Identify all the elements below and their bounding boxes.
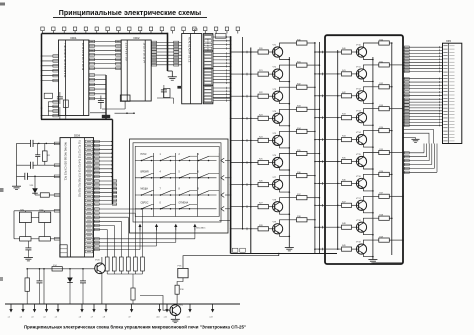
outer frame drop to ground at x=167.5 <box>167 33 169 71</box>
emitter wire VT5 <box>280 145 291 149</box>
collector output wire row 3 <box>307 86 316 88</box>
capacitor C3 vertical <box>35 154 40 156</box>
svg-text:DD8: DD8 <box>74 133 80 137</box>
svg-text:DD3: DD3 <box>193 27 199 31</box>
svg-text:a2: a2 <box>20 317 22 319</box>
resistor R13 <box>39 237 50 241</box>
small block below DD3 <box>164 89 171 98</box>
resistor row R5-R10 <box>105 257 144 274</box>
transistor VT11 <box>356 67 367 80</box>
collector output wire right row 1 <box>389 42 392 44</box>
keyboard switch SB10 <box>160 189 176 196</box>
resistor R41 <box>342 70 352 76</box>
right driver block border <box>325 35 403 264</box>
keyboard switch SB5 <box>141 171 154 178</box>
transistor VT12 <box>356 88 367 101</box>
left array collector rail A <box>314 42 316 254</box>
emitter wire VT4 <box>280 123 291 127</box>
collector output wire row 8 <box>307 197 320 199</box>
keyboard switch SB4 <box>198 154 220 161</box>
left array input wire row 8 <box>230 205 258 208</box>
capacitor C2 <box>30 162 32 169</box>
vertical bus XS1 <box>230 36 232 253</box>
collector wire VT6 <box>280 154 297 159</box>
svg-text:ОТМЕНА: ОТМЕНА <box>179 201 189 204</box>
base wire VT13 <box>352 117 359 119</box>
collector output wire row 6 <box>307 153 320 155</box>
base wire VT5 <box>269 139 275 141</box>
resistor R37 <box>297 194 308 200</box>
heavy vertical net at x=106 <box>105 75 107 119</box>
base wire VT16 <box>352 182 359 184</box>
emitter wire VT3 <box>280 101 291 105</box>
outer frame bottom edge left part <box>41 118 113 120</box>
resistor R45 <box>342 158 352 164</box>
resistor R27 <box>258 203 269 209</box>
connector ladder group 1 <box>403 46 443 73</box>
wire row 3 <box>17 175 61 177</box>
IC DD1 left pins lower group <box>48 101 58 117</box>
collector output wire right row 9 <box>389 217 392 219</box>
svg-text:МОЩН: МОЩН <box>141 189 149 191</box>
oscillator wire row 1 <box>17 142 61 144</box>
left array input wire row 4 <box>230 117 258 120</box>
main ground rail <box>5 303 240 305</box>
svg-text:a8: a8 <box>103 317 105 319</box>
connector lower ladder group 4 <box>403 144 437 174</box>
left array input wire row 7 <box>230 183 258 186</box>
svg-text:a4: a4 <box>43 317 45 319</box>
resistor R49 <box>342 245 352 251</box>
right array input wire row 6 <box>314 160 341 163</box>
right array emitter bottom wire <box>373 262 403 264</box>
resistor R34 <box>297 128 308 134</box>
MCU pin ladder to heavy vertical <box>94 140 113 177</box>
outer frame left edge <box>41 34 43 120</box>
transistor VT16 <box>356 176 367 188</box>
transistor VT3 <box>273 89 283 101</box>
svg-text:А0 А1 А2 А3 А4 ОЕ СЕ: А0 А1 А2 А3 А4 ОЕ СЕ <box>187 37 190 63</box>
base wire VT17 <box>352 204 359 206</box>
emitter wire VT9 <box>280 233 291 237</box>
connector XP2 body <box>443 43 462 143</box>
IC DD3 right pin box column <box>203 34 213 104</box>
capacitor C6 under DD3 <box>161 89 167 91</box>
right array input wire row 2 <box>314 73 341 76</box>
keyboard switch SB2 <box>160 154 176 161</box>
capacitor C7 <box>24 173 26 180</box>
left array bottom pin labels <box>232 248 238 252</box>
resistor R28 <box>258 225 269 231</box>
VT20 emitter wire <box>101 273 103 304</box>
svg-text:a6: a6 <box>79 317 81 319</box>
base wire VT12 <box>352 95 359 97</box>
right array emitter ground <box>372 258 374 260</box>
IC DD3 internal divider <box>190 34 192 104</box>
transistor VT10 <box>356 45 367 58</box>
collector output wire right row 10 <box>389 239 403 241</box>
IC DD1 lower pins jumper bracket <box>42 102 49 116</box>
resistor R20 <box>258 48 269 54</box>
emitter wire VT10 <box>363 56 373 60</box>
resistor R16 vertical <box>175 285 179 294</box>
outer frame vertical drop at x=112 <box>112 119 114 204</box>
base wire VT3 <box>269 95 275 97</box>
collector wire VT3 <box>280 87 297 92</box>
resistor R11 <box>131 288 135 300</box>
keyboard switch SB15 <box>179 201 198 209</box>
resistor R3 under DD1 <box>63 100 68 107</box>
right array input wire row 10 <box>314 248 341 251</box>
collector wire VT9 <box>280 220 297 225</box>
resistor R26 <box>258 181 269 187</box>
resistor R31 <box>297 62 308 68</box>
svg-text:РА0 РА1 РА2 ВВ ОЗУ СЭ РС0 РС1: РА0 РА1 РА2 ВВ ОЗУ СЭ РС0 РС1 <box>64 142 67 181</box>
keyboard switch SB13 <box>141 202 154 209</box>
wire to R11 <box>132 274 134 288</box>
left array input wire row 6 <box>230 161 258 164</box>
resistor R14 <box>52 267 62 271</box>
keyboard outer box <box>130 139 229 233</box>
emitter wire VT8 <box>280 211 291 215</box>
base wire VT2 <box>269 73 275 75</box>
keyboard switch SB8 <box>198 171 220 178</box>
wire under DD3 to pin column <box>157 97 174 99</box>
resistor R58 <box>379 215 390 221</box>
collector output wire right row 5 <box>389 130 392 132</box>
capacitor C8 <box>25 247 31 249</box>
emitter wire VT15 <box>363 166 373 170</box>
capacitor C1 <box>30 140 32 147</box>
collector output wire row 9 <box>307 219 316 221</box>
resistor R55 <box>379 149 390 155</box>
left array input wire row 9 <box>230 228 258 231</box>
capacitor C5 under DD1 <box>57 96 63 98</box>
right array input wire row 3 <box>314 95 341 98</box>
collector wire VT17 <box>363 196 378 201</box>
svg-text:a1: a1 <box>8 317 10 319</box>
resistor R23 <box>258 114 269 120</box>
keyboard inner box <box>135 146 219 216</box>
collector output wire right row 8 <box>389 196 403 198</box>
keyboard row 4 wire <box>135 208 216 210</box>
wire near frame corner left <box>90 112 106 114</box>
scan speck left edge 2 <box>0 277 3 281</box>
resistor R32 <box>297 84 308 90</box>
transistor VT2 <box>273 67 283 80</box>
transistor VT7 <box>273 177 283 190</box>
transistor VT6 <box>273 155 283 167</box>
connector bent wire 1 <box>403 130 434 144</box>
resistor R44 <box>342 136 352 142</box>
resonator coupling wire <box>31 216 39 218</box>
resistor R42 <box>342 92 352 98</box>
resistor R22 <box>258 92 269 98</box>
resistor R2 <box>40 193 49 197</box>
wire drop left <box>43 269 45 304</box>
svg-text:a9: a9 <box>128 317 130 319</box>
svg-text:a10: a10 <box>156 317 159 319</box>
collector wire VT19 <box>363 240 378 245</box>
collector wire VT11 <box>363 65 378 70</box>
left vertical supply wire <box>16 143 18 185</box>
resonator wire row <box>14 210 60 212</box>
left array input wire row 3 <box>230 95 258 98</box>
resistor R53 <box>379 105 390 111</box>
left array input rail <box>250 48 252 254</box>
IC DD2 internal dividers <box>126 40 128 101</box>
relay supply wire <box>183 254 279 269</box>
collector wire VT13 <box>363 109 378 114</box>
svg-text:Принципиальная электрическая с: Принципиальная электрическая схема блока… <box>24 325 246 330</box>
MCU pin wires to resistor row <box>94 208 143 257</box>
ground G1 <box>16 185 18 186</box>
bottom common wire <box>27 268 95 270</box>
resistor R57 <box>379 193 390 199</box>
resonator ZQ2 (ПЭ1) <box>19 209 31 222</box>
right array input wire row 1 <box>314 51 341 54</box>
collector wire VT16 <box>363 174 378 179</box>
resistor row wire <box>14 238 20 240</box>
connector XP2 pin marks <box>443 46 454 141</box>
svg-text:a3: a3 <box>31 317 33 319</box>
MCU DD4 right pin number boxes <box>85 140 92 253</box>
transistor VT8 <box>273 199 283 211</box>
VT20 collector wire <box>101 257 103 264</box>
emitter wire VT11 <box>363 78 373 82</box>
resistor R33 <box>297 106 308 112</box>
resistor R21 <box>258 70 269 76</box>
keyboard switch SB11 <box>179 189 198 196</box>
MCU DD4 internal dividers <box>70 138 72 257</box>
dark pad below DD3 <box>177 86 181 89</box>
MCU pin wires to keyboard columns <box>94 231 195 251</box>
collector wire VT8 <box>280 198 297 203</box>
crystal ZQ1 box under DD2 <box>120 95 130 101</box>
resistor R54 <box>379 127 390 133</box>
emitter wire VT13 <box>363 122 373 126</box>
svg-text:a7: a7 <box>91 317 93 319</box>
left array emitter ground <box>288 246 290 248</box>
keyboard switch SB7 <box>179 171 198 178</box>
keyboard column wires <box>154 153 220 217</box>
bus wires DD1 to DD2 <box>89 40 121 69</box>
keyboard row 1 wire <box>135 160 216 162</box>
collector output wire right row 6 <box>389 152 403 154</box>
frame ground stub <box>168 70 173 72</box>
svg-text:7 40 39 38 37 36 35 34 33 9 11: 7 40 39 38 37 36 35 34 33 9 11 <box>63 43 66 78</box>
emitter wire VT16 <box>363 188 373 192</box>
interface label box near bus top <box>215 34 226 39</box>
transistor VT4 <box>273 111 283 124</box>
svg-text:Принципиальные электрические с: Принципиальные электрические схемы <box>59 10 201 17</box>
emitter wire VT7 <box>280 189 291 193</box>
transistor VT15 <box>356 154 367 166</box>
svg-text:ПУСК: ПУСК <box>141 154 148 156</box>
collector wire VT2 <box>280 65 297 70</box>
left array emitter rail <box>288 57 290 246</box>
svg-text:SB1-SB15: SB1-SB15 <box>196 228 206 230</box>
resistor R35 <box>297 150 308 156</box>
svg-text:a5: a5 <box>55 317 57 319</box>
emitter wire VT19 <box>363 254 373 258</box>
left array collector rail B <box>318 42 320 254</box>
bus wires DD3 to connector column <box>203 35 231 103</box>
collector wire VT5 <box>280 131 297 136</box>
transistor VT18 <box>356 220 367 232</box>
resistor R52 <box>379 83 390 89</box>
IC DD2 body <box>121 40 151 101</box>
capacitor C10 <box>80 268 86 304</box>
connector bent wire 2 <box>403 133 429 143</box>
scan speck left edge 1 <box>0 188 4 192</box>
keyboard switch SB3 <box>179 154 198 161</box>
collector wire VT12 <box>363 87 378 92</box>
emitter wire VT18 <box>363 232 373 236</box>
svg-text:DD2: DD2 <box>134 36 140 40</box>
oscillator wire row 2 <box>17 164 61 166</box>
resistor R56 <box>379 171 390 177</box>
wire DD3 top pin to bus <box>214 97 231 99</box>
collector wire VT15 <box>363 153 378 158</box>
keyboard switch SB6 <box>160 171 176 178</box>
transistor VT13 <box>356 110 367 122</box>
resistor R15 vertical <box>25 268 29 304</box>
resistor R40 <box>342 48 352 54</box>
MCU DD4 body <box>60 138 94 257</box>
collector output wire row 5 <box>307 131 316 133</box>
bus wires DD2 to DD3 <box>151 41 182 66</box>
base wire VT9 <box>269 228 275 230</box>
base wire VT11 <box>352 73 359 75</box>
right array input wire row 7 <box>314 182 341 185</box>
outer frame top edge <box>42 33 168 35</box>
collector output wire row 2 <box>307 64 320 66</box>
resistor R30 <box>297 39 308 45</box>
wire near frame corner right <box>115 112 135 114</box>
pad at bottom of heavy net <box>102 115 110 118</box>
resistor R12 <box>20 237 31 241</box>
keyboard row 1 exit arrow <box>221 158 232 163</box>
ground G2 <box>27 250 29 258</box>
transistor VT17 <box>356 198 367 211</box>
right array input wire row 4 <box>314 116 341 119</box>
capacitor C9 <box>37 268 43 304</box>
collector wire VT4 <box>280 109 297 114</box>
resistor row common wire <box>107 273 142 275</box>
collector output wire row 4 <box>307 109 320 111</box>
svg-text:a13: a13 <box>209 317 212 319</box>
keyboard switch SB1 <box>141 154 154 161</box>
keyboard column return arrows <box>138 224 196 231</box>
connector ladder group 3 <box>403 98 443 127</box>
resistor R38 <box>297 216 308 222</box>
resistor R43 <box>342 114 352 120</box>
base wire VT1 <box>269 51 275 53</box>
MCU DD4 left pin boxes <box>54 142 60 240</box>
base wire VT19 <box>352 248 359 250</box>
right array input wire row 8 <box>314 204 341 207</box>
collector output wire row 1 <box>307 42 316 44</box>
resistor R51 <box>379 61 390 67</box>
base wire VT14 <box>352 139 359 141</box>
keyboard corner wire to bus <box>219 220 230 222</box>
relay to resistor wire <box>177 278 183 285</box>
keyboard switch SB9 <box>141 189 154 196</box>
IC DD1 internal dividers <box>65 40 67 116</box>
keyboard switch SB12 <box>198 189 220 196</box>
collector wire VT7 <box>280 176 297 181</box>
base wire VT10 <box>352 51 359 53</box>
connector XP2 internal divider <box>447 43 449 143</box>
collector wire VT10 <box>363 43 378 48</box>
svg-text:1 2 3 4 5 6 7 8 9: 1 2 3 4 5 6 7 8 9 <box>125 43 128 62</box>
base wire VT6 <box>269 162 275 164</box>
keyboard middle box <box>133 143 221 222</box>
title underline <box>53 16 207 18</box>
base wire VT8 <box>269 206 275 208</box>
keyboard row 3 exit arrow <box>221 193 232 198</box>
transistor VT1 <box>273 45 283 58</box>
collector output wire right row 2 <box>389 64 403 66</box>
MCU pin ladder group 2 <box>94 180 118 205</box>
connector ladder group 2 <box>403 78 443 97</box>
transistor VT14 <box>356 132 367 145</box>
collector wire VT14 <box>363 131 378 136</box>
right array emitter rail <box>372 57 374 258</box>
collector output wire right row 7 <box>389 174 392 176</box>
top connector pin ticks <box>41 27 240 34</box>
emitter wire VT6 <box>280 167 291 171</box>
resistor R25 <box>258 159 269 165</box>
diode VD2 <box>67 268 73 304</box>
MCU DD4 bottom-left sub-block <box>60 245 67 257</box>
collector output wire right row 3 <box>389 86 392 88</box>
transistor VT5 <box>273 133 283 145</box>
left array feeder line <box>242 37 244 230</box>
base wire VT18 <box>352 226 359 228</box>
right array input wire row 9 <box>314 226 341 229</box>
resistor R1 vertical <box>43 151 48 161</box>
svg-text:Р10 Р11 Р12 Р13 Р14 Р15 Р16 Р1: Р10 Р11 Р12 Р13 Р14 Р15 Р16 Р17 РВ0 РВ1 … <box>78 140 80 198</box>
resistor R24 <box>258 136 269 142</box>
collector wire VT18 <box>363 218 378 223</box>
emitter wire VT12 <box>363 100 373 104</box>
IC DD3 body <box>182 34 202 104</box>
emitter wire VT14 <box>363 144 373 148</box>
svg-text:ХР2: ХР2 <box>446 39 451 43</box>
svg-text:a12: a12 <box>187 317 190 319</box>
collector output wire row 7 <box>307 175 316 177</box>
resistor R36 <box>297 172 308 178</box>
IC DD1 right lower pin stubs <box>89 74 106 100</box>
R16 to VT21 wire <box>176 294 178 305</box>
transistor VT9 <box>273 221 283 234</box>
resonator ZQ3 (ПЭ2) <box>39 209 51 222</box>
VT21 emitter ground <box>174 316 176 320</box>
right array collector rail <box>391 43 393 255</box>
svg-text:СБРОС: СБРОС <box>141 202 149 204</box>
diode VD1 <box>30 176 38 195</box>
IC DD1 left pins upper group <box>41 55 59 82</box>
transistor VT21 <box>170 305 184 316</box>
emitter wire VT1 <box>280 56 291 60</box>
resistor R46 <box>342 179 352 185</box>
resistor R50 <box>379 39 390 45</box>
svg-text:12 13 14 15 16 17 18 19: 12 13 14 15 16 17 18 19 <box>81 43 84 71</box>
left array input wire row 2 <box>230 73 258 76</box>
right array input wire row 5 <box>314 138 341 141</box>
